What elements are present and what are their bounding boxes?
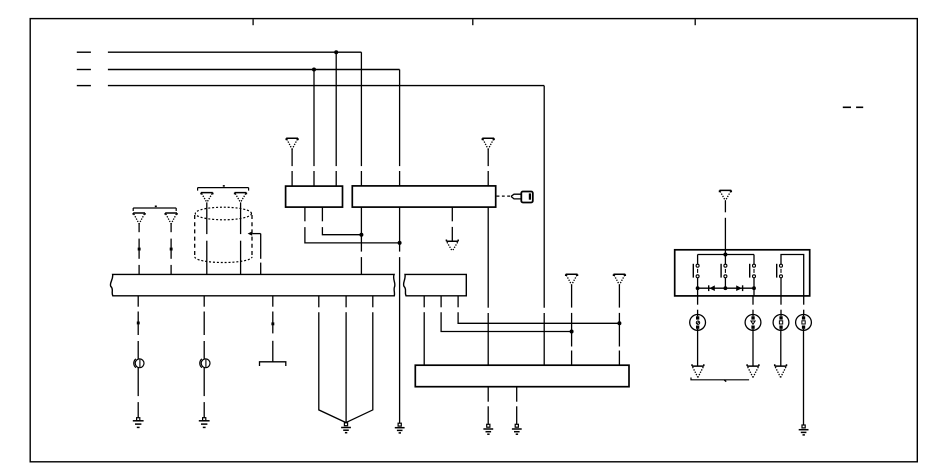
junction dot on bus 2 [312,68,316,72]
wire relay to bulb L1 [697,296,699,315]
wire relay to bulb L3 [780,296,782,315]
junction dot node (571.6,331.5) [570,330,574,334]
junction dot diode bus centre [724,286,728,290]
connector triangle T12 (down) [747,364,759,377]
shield tap arrowhead [248,231,253,235]
shield tap wire to bar1 [252,234,261,275]
connector triangle A2 (above box2) [482,138,494,149]
ground G6 [512,424,522,434]
dashed lead to ignition key [497,195,511,197]
wire relay to bulb L2 [752,296,754,315]
loose dashes top right [843,106,863,108]
wire box1 pin A down-right to node [305,207,400,243]
connector triangle A1 (above box1) [286,138,298,149]
wire bulb L4 to ground G7 [803,330,805,425]
junction dot node (619.4,323.3) [617,321,621,325]
diode D2 (pointing right) [736,285,742,291]
splice square on wire G1 [137,322,140,325]
funnel wire left [319,296,346,423]
wire bar1 to connector/ground G1 [137,296,139,418]
ground G5 [483,424,493,434]
bulb L3 [773,315,789,331]
box1 (control unit) [286,186,343,207]
wire triangle C2 through cylinder to bar1 [240,202,242,274]
bus wire 1 [77,51,362,53]
connector triangle B1 pair bracket [133,206,176,211]
ground bus bar2 (wavy left end) [404,274,467,295]
ground G1 [133,418,144,428]
connector triangle D1 (below box2, pointing down) [446,240,458,252]
wire T7 into relay box [724,201,726,255]
splice square on open-terminal wire [271,322,274,325]
wire bulb L3 to triangle T13 [780,330,782,366]
wire bar1 to connector/ground G2 [203,296,205,418]
open terminal staple [260,362,286,366]
ground bus bar1 (wavy ends) [110,274,395,295]
wire box3 to ground G5 [487,387,489,425]
wire triangle B1 to bar1 [138,224,140,275]
wire T8 to box3 [571,285,573,365]
connector triangle C1 [201,193,213,203]
wire bus1 tap down to box1 [335,52,337,186]
switch S3 [750,255,756,289]
bus wire 3 [77,85,544,87]
wire T9 to box3 [618,285,620,365]
long wire box2 pin to ground G4 [399,207,401,423]
connector triangle C pair bracket (above cylinder) [198,186,249,191]
bulb L1 [690,315,706,331]
wire diode bus to box bottom (left) [697,288,699,296]
wire bus2 end down to box2 [399,70,401,186]
wire bar2 pin2 right to node on T8 stem [441,296,571,332]
ground G7 [799,425,809,435]
connector triangle T9 [614,274,626,285]
junction dot feed rail [723,253,727,257]
relay / switch assembly box [675,250,810,296]
ground G4 (long wire from box2) [395,423,405,433]
wire box1 pin B down-right to node [322,207,361,235]
connector triangle T11 (down) [692,364,704,377]
wire bus2 tap down to box1 [313,70,315,187]
bracket under triangles T11-T12 [691,378,749,382]
switch S4 [777,255,804,296]
junction dot diode bus left [696,286,700,290]
splice square on wire B2 [170,248,173,251]
switch S2 [721,255,727,289]
wire relay to bulb L4 [803,296,805,315]
connector triangle T7 (above relay box) [720,190,732,200]
ground G3 (funnel apex) [341,423,351,433]
wire bar2 pin1 to box3 [423,296,425,365]
connector triangle B1 [133,213,145,224]
wire bulb L2 to triangle T12 [752,330,754,366]
shield cylinder (dashed) [195,207,252,262]
splice square on wire B1 [138,248,141,251]
wire triangle C1 through cylinder to bar1 [206,202,208,274]
wire box2 pin to down-triangle [451,207,453,241]
funnel wire middle [345,296,347,423]
bulb L4 [796,315,812,331]
connector triangle T8 [566,274,578,285]
switch S1 [693,255,699,289]
wire bus1 end down to box2 [360,52,362,186]
bulb L2 [745,315,761,331]
diode bus [698,287,754,289]
junction dot on bus 1 [334,50,338,54]
wire triangle B2 to bar1 [170,224,172,275]
inline connector symbol C1 [134,359,144,368]
relay feed rail [698,254,754,256]
junction dot node (399.6,242.9) [398,241,402,245]
wire diode bus to box bottom (right) [753,288,755,296]
wire bulb L1 to triangle T11 [697,330,699,366]
wire bus3 end down to box3 [543,86,545,366]
wire box2 pin to ground bus bar1 [360,207,362,274]
box3 (control unit, bottom) [415,365,629,387]
diode D1 (pointing left) [709,285,715,291]
wire bar2 pin3 right to node on T9 stem [458,296,619,324]
bus wire 2 [77,69,400,71]
junction dot diode bus right [752,286,756,290]
wire bar1 to open terminal [272,296,274,362]
ignition key symbol [511,192,533,203]
funnel wire right [346,296,373,423]
wire triangle A1 to box1 [291,149,293,186]
wire box3 to ground G6 [516,387,518,425]
inline connector symbol C2 [200,359,210,368]
long wire box2 pin to box3 [487,207,489,365]
connector triangle C2 [235,193,247,203]
box2 (control unit, wide) [352,186,495,207]
connector triangle T13 (down) [775,364,787,377]
junction dot node (361.4,234.7) [359,233,363,237]
ground G2 [199,418,210,428]
wire triangle A2 to box2 [487,149,489,186]
connector triangle B2 [165,213,177,224]
